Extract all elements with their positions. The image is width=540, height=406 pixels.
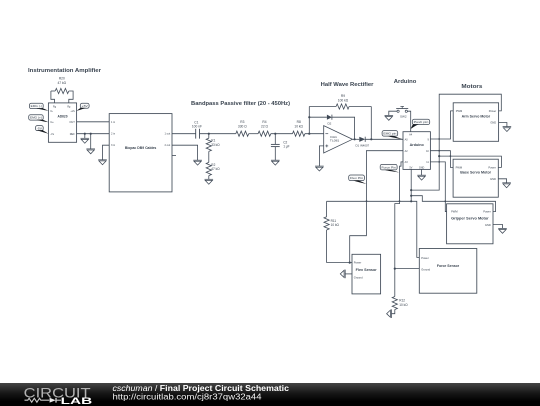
svg-text:PWM: PWM — [456, 166, 462, 170]
op-amp minus sign — [325, 133, 328, 135]
svg-text:100 kΩ: 100 kΩ — [338, 98, 349, 102]
svg-text:Half Wave Rectifier: Half Wave Rectifier — [321, 82, 375, 88]
svg-text:Power: Power — [421, 256, 429, 260]
power rail to base servo power — [438, 155, 440, 157]
svg-text:EMG (-): EMG (-) — [31, 104, 42, 108]
op-amp non-inverting input to ground — [319, 146, 323, 166]
svg-text:22 Ω: 22 Ω — [261, 124, 269, 128]
svg-text:OUT: OUT — [69, 120, 75, 124]
resistor R1 — [208, 134, 210, 139]
wire SW2 right to Arduino top pin — [407, 111, 410, 132]
svg-text:REF: REF — [70, 132, 76, 136]
svg-text:Force Sensor: Force Sensor — [437, 264, 460, 268]
resistor R2 — [206, 162, 211, 175]
svg-text:Base Servo Motor: Base Servo Motor — [460, 171, 492, 175]
wire Arduino A2 to flex divider — [350, 151, 403, 263]
ground G1 — [84, 134, 86, 139]
resistor R11 — [326, 201, 328, 217]
wire C1 to R3 — [200, 133, 236, 135]
Flex Sensor ground wire — [345, 273, 352, 275]
resistor R8 — [293, 131, 305, 136]
diode D2 — [327, 115, 332, 120]
ground below R2 — [208, 176, 210, 180]
Force Sensor box — [419, 249, 477, 294]
svg-text:SW2: SW2 — [400, 115, 407, 119]
op-amp plus sign — [325, 145, 328, 147]
svg-text:Arm Servo Motor: Arm Servo Motor — [462, 115, 491, 119]
svg-text:5V: 5V — [409, 166, 412, 169]
resistor R20 — [51, 91, 55, 103]
node 5V vertical joins rail — [410, 200, 412, 202]
Arm Servo GND wire to ground — [499, 123, 507, 127]
wire AD620 REF to Biopac 2 in — [77, 133, 110, 135]
Arduino box — [403, 132, 430, 170]
wire D1 to Arduino A0 — [365, 138, 403, 140]
svg-text:1 out: 1 out — [165, 132, 171, 136]
flag Force Pin — [380, 164, 397, 170]
svg-text:33 kΩ: 33 kΩ — [211, 143, 220, 147]
flag +5V — [80, 103, 89, 108]
svg-text:100 nF: 100 nF — [192, 124, 202, 128]
svg-text:GND: GND — [490, 177, 496, 181]
Arduino 5V wire down — [410, 169, 412, 201]
svg-text:AD620: AD620 — [58, 114, 68, 118]
CircuitLab logo resistor squiggle — [25, 398, 50, 402]
svg-text:10 kΩ: 10 kΩ — [399, 303, 408, 307]
node main line R1 tap — [208, 133, 210, 135]
svg-text:Ground: Ground — [354, 275, 363, 279]
resistor R12 — [392, 297, 397, 310]
node D2 row on feedback vertical — [308, 116, 310, 118]
wire Arduino A3 to force divider — [395, 162, 403, 297]
flag Push pin — [412, 119, 429, 124]
svg-text:GND: GND — [419, 166, 425, 169]
svg-text:Gripper Servo Motor: Gripper Servo Motor — [451, 216, 489, 220]
flag EMG pin — [382, 131, 398, 137]
svg-text:Arduino: Arduino — [394, 79, 417, 85]
svg-text:330 Ω: 330 Ω — [238, 124, 247, 128]
5V branch to servo power rail — [410, 189, 412, 191]
flag EMG (+) — [29, 115, 44, 120]
Base Servo GND wire to ground — [498, 179, 506, 183]
svg-text:In+: In+ — [50, 120, 54, 124]
capacitor C1 — [195, 129, 197, 139]
wire R4 to R8 — [271, 133, 293, 135]
Arm Servo Motor box — [453, 103, 498, 142]
ground G4 — [193, 159, 202, 161]
feedback left vertical wire — [308, 107, 310, 134]
svg-text:1 in: 1 in — [111, 120, 116, 124]
wire AD620 OUT to Biopac 1 in — [77, 121, 110, 123]
wire to Force Sensor Ground pin — [395, 268, 420, 270]
svg-text:2 in: 2 in — [111, 132, 116, 136]
wire to diode D2 — [309, 116, 327, 118]
svg-text:PWM: PWM — [451, 210, 457, 214]
svg-text:+5V: +5V — [82, 104, 88, 108]
flag -5V — [36, 126, 44, 131]
resistor R9 — [309, 106, 336, 108]
svg-text:Bandpass Passive filter (20 -: Bandpass Passive filter (20 - 450Hz) — [191, 101, 290, 107]
node D2 to output — [354, 138, 356, 140]
svg-text:10 kΩ: 10 kΩ — [294, 124, 303, 128]
Base Servo Motor box — [453, 159, 498, 197]
ground below C2 — [271, 159, 280, 161]
IC U1 AD620 instrumentation amplifier body — [48, 103, 76, 142]
node on REF wire — [84, 133, 86, 135]
svg-text:EMG (+): EMG (+) — [30, 116, 42, 120]
op-amp OA1 TL081 — [324, 126, 353, 153]
switch SW2 — [396, 108, 408, 110]
flag Flex Pin — [349, 175, 365, 181]
Biopac unused pin stub — [172, 155, 176, 157]
wire R3 to R4 — [249, 133, 258, 135]
Gripper Servo Motor box — [447, 204, 493, 244]
crossing hops on 5V rail — [366, 200, 368, 202]
node A2 joins flex power — [349, 262, 351, 264]
CircuitLab logo diode — [50, 397, 56, 402]
svg-text:Ground: Ground — [421, 268, 430, 272]
svg-text:Flex Pin: Flex Pin — [350, 176, 364, 180]
svg-text:D2: D2 — [327, 122, 331, 126]
svg-text:10 kΩ: 10 kΩ — [331, 223, 340, 227]
svg-text:D1 IN4007: D1 IN4007 — [355, 143, 369, 147]
svg-text:Push pin: Push pin — [414, 120, 429, 124]
wire Arduino D10 to Base Servo PWM — [430, 151, 453, 168]
wire Arduino D11 to Gripper Servo PWM — [430, 162, 446, 212]
svg-text:http://circuitlab.com/cj8r37qw: http://circuitlab.com/cj8r37qw32a44 — [113, 392, 263, 401]
Biopac 2 out ground wire — [172, 145, 198, 160]
wire Biopac 1 out to C1 — [172, 133, 196, 135]
node C2 tap — [274, 133, 276, 135]
svg-text:2 out: 2 out — [165, 143, 171, 147]
node feedback tap — [308, 133, 310, 135]
svg-text:Flex Sensor: Flex Sensor — [356, 268, 378, 272]
wire R8 to op-amp inverting input — [305, 133, 324, 135]
resistor R4 — [258, 131, 271, 136]
svg-text:47 kΩ: 47 kΩ — [58, 81, 67, 85]
ground G3 — [98, 159, 107, 161]
wire R1 to R2 — [208, 151, 210, 162]
svg-text:Motors: Motors — [461, 84, 482, 90]
ground below R12 — [392, 310, 395, 314]
svg-text:Power: Power — [354, 261, 362, 265]
wire op-amp output to D1 — [352, 138, 359, 140]
wire SW2 left to ground — [389, 111, 397, 115]
svg-text:47 kΩ: 47 kΩ — [211, 167, 220, 171]
svg-text:In-: In- — [50, 109, 53, 113]
svg-text:1 µF: 1 µF — [283, 145, 289, 149]
wire D2 to output — [332, 117, 355, 139]
5V branch to gripper and force power — [410, 195, 412, 197]
node R9 to output — [370, 138, 372, 140]
svg-text:+Vs: +Vs — [70, 109, 75, 113]
svg-text:Instrumentation Amplifier: Instrumentation Amplifier — [28, 68, 102, 74]
flag EMG (-) — [29, 103, 43, 108]
svg-text:LAB: LAB — [61, 396, 93, 406]
node on REF wire 2 — [90, 133, 92, 135]
wire R9 down to output — [370, 107, 372, 140]
node force sensor ground tap — [394, 268, 396, 270]
crossing hops on servo power rail — [438, 138, 440, 140]
svg-text:3 in: 3 in — [111, 143, 116, 147]
svg-text:Power: Power — [483, 210, 491, 214]
svg-text:Power: Power — [488, 166, 496, 170]
svg-text:PWM: PWM — [456, 109, 462, 113]
svg-text:Biopac DB9 Cables: Biopac DB9 Cables — [125, 146, 157, 150]
diode D1 — [359, 137, 365, 142]
5V horizontal rail — [327, 201, 420, 257]
svg-text:Force Pin: Force Pin — [382, 165, 397, 169]
svg-text:Arduino: Arduino — [410, 143, 424, 147]
resistor R3 — [236, 131, 249, 136]
svg-text:-5V: -5V — [37, 126, 42, 130]
svg-text:TL081: TL081 — [330, 139, 340, 143]
Gripper Servo GND wire to ground — [493, 225, 503, 229]
capacitor C2 — [274, 134, 276, 145]
svg-text:Power: Power — [489, 109, 497, 113]
Biopac 3 in ground wire — [103, 145, 110, 160]
Biopac DB9 Cables box — [109, 114, 172, 192]
svg-text:GND: GND — [485, 223, 491, 227]
Arduino GND wire to ground — [421, 169, 423, 175]
svg-text:GND: GND — [490, 121, 496, 125]
wire Arduino D9 to Arm Servo PWM — [430, 111, 453, 139]
wire R11 to Flex Sensor Power — [327, 262, 352, 264]
Flex Sensor box — [352, 254, 381, 294]
svg-text:EMG pin: EMG pin — [383, 132, 396, 136]
ground G2 — [90, 134, 92, 149]
